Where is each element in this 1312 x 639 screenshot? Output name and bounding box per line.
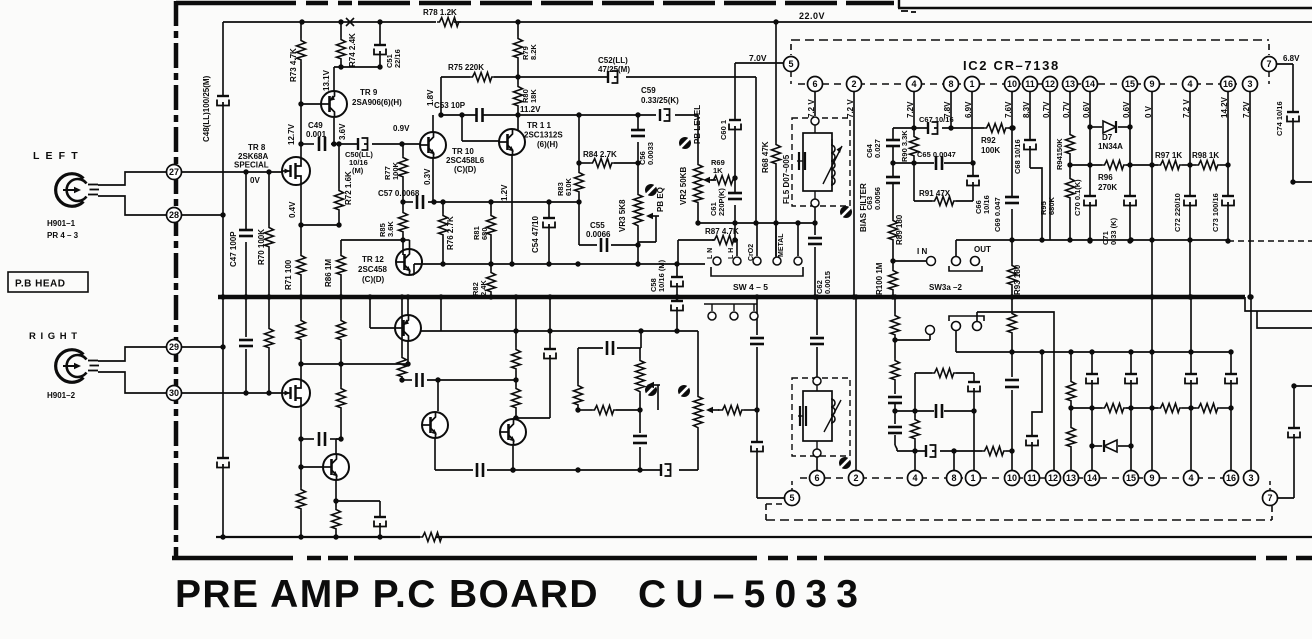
svg-text:R87 4.7K: R87 4.7K [705,227,739,236]
pin 8 of IC2 top row x951 [944,77,959,92]
svg-text:R68 47K: R68 47K [761,141,770,173]
wire TR8b source [300,407,302,439]
svg-text:CrO2: CrO2 [748,244,755,261]
bias filter screw [840,206,852,218]
resistor R74b column [340,297,342,318]
connector pin 30 [167,386,182,401]
svg-text:1: 1 [970,473,975,483]
wire TR11 collector [517,115,519,130]
wire y128 C67 R92 [893,127,928,129]
svg-text:0.3V: 0.3V [423,168,432,185]
wire pin12 column [1049,92,1051,240]
svg-text:1: 1 [969,79,974,89]
resistor R78 1.2K on rail [437,18,461,27]
svg-text:8: 8 [951,473,956,483]
connector H901-2 jack symbol [56,350,99,383]
svg-text:610K: 610K [564,177,573,196]
transistor TR9 PNP [321,91,347,117]
signal wire y115 with C53 [441,114,476,116]
FL5 internal capacitor [797,160,803,162]
svg-text:2SC458: 2SC458 [358,265,387,274]
switch SW3ab [952,322,961,331]
IC2 pin row dashed link top [798,83,1243,85]
wire pin2b column [855,297,857,470]
resistor R82b [335,501,337,507]
wire TR9b base [370,327,395,329]
svg-text:(C)(D): (C)(D) [362,275,385,284]
capacitor C58c [660,464,662,476]
svg-text:SW3a –2: SW3a –2 [929,283,962,292]
svg-text:R I G H T: R I G H T [29,331,78,342]
svg-text:C60 1: C60 1 [719,120,728,140]
feedback block R84 R83 C56 VR3 [578,115,580,163]
wire C48 column [222,22,224,96]
wire R75 node column [440,77,442,115]
svg-text:1N34A: 1N34A [1098,142,1123,151]
ground column bottom left [222,297,224,458]
pin 5 of IC2 bottom [785,491,800,506]
svg-text:12.7V: 12.7V [287,123,296,145]
svg-text:R91 47X: R91 47X [919,189,951,198]
capacitor C57 0.0068 [416,195,419,209]
pin 5 of IC2 [784,57,799,72]
svg-text:27: 27 [169,167,179,177]
wire pin5 7.0V feed [735,62,784,64]
svg-text:C73 100/16: C73 100/16 [1211,193,1220,232]
wire pin 28 to C48 column [182,214,223,216]
svg-text:P.B HEAD: P.B HEAD [15,279,66,290]
pin 10 of IC2 top row x1012 [1005,77,1020,92]
svg-text:11: 11 [1025,79,1035,89]
svg-text:12: 12 [1045,79,1055,89]
svg-text:8: 8 [948,79,953,89]
resistor R74 2.4K [340,22,342,37]
pin 14 of IC2 bottom row x1092 [1085,471,1100,486]
resistor R69b [718,409,720,411]
wire pin2 column [853,92,855,297]
resistor R78b on bottom rail [420,533,444,542]
pin 4 of IC2 bottom row x1191 [1184,471,1199,486]
top-right table box edge [898,0,900,8]
svg-text:L N: L N [707,248,714,259]
svg-text:I N: I N [917,247,927,256]
svg-text:TR 10: TR 10 [452,147,474,156]
IC2 dashed box bottom [766,519,1272,521]
svg-text:C67 10/16: C67 10/16 [919,115,954,124]
potentiometer VR2 50KB [697,115,699,162]
R91 loop [913,163,915,201]
wire pin14 column C70 [1089,92,1091,196]
svg-text:1K: 1K [713,166,723,175]
svg-text:IC2 CR–7138: IC2 CR–7138 [963,58,1060,73]
svg-text:12: 12 [1048,473,1058,483]
svg-text:R70 100K: R70 100K [257,229,266,265]
resistor R71b top column [300,297,302,318]
wire pin3 column [1249,92,1251,297]
svg-text:5: 5 [789,493,794,503]
svg-text:9: 9 [1149,473,1154,483]
signal wire C57 [403,201,413,203]
wire pin10b column R93b C69b [1011,297,1013,311]
wire TR9b top [407,297,409,315]
svg-text:R86 1M: R86 1M [324,259,333,287]
wire TR11b emitter [512,446,514,470]
switch SW4-5 contacts [713,257,721,265]
wire pin16 column C73 [1227,92,1229,196]
capacitor C49b wire [301,438,314,440]
wire emitter to C58b [336,500,380,502]
pin 15 of IC2 bottom row x1131 [1124,471,1139,486]
svg-text:0.0033: 0.0033 [646,142,655,165]
wire y408 bottom R96b R97b R98b [1071,407,1102,409]
svg-text:L H: L H [728,248,735,259]
svg-text:C54 47/10: C54 47/10 [531,216,540,253]
left border dash-dot frame line [174,1,179,557]
resistor R73 column [300,22,302,38]
svg-text:4: 4 [1188,473,1193,483]
resistor R79 8.2K [517,22,519,36]
wire pin4bb column C72b [1190,297,1192,374]
IC2 bottom pin row dashed [800,477,1244,479]
svg-text:OUT: OUT [974,245,991,254]
wire OUTb to pin12b [977,312,1054,478]
wire y331 long [421,330,698,332]
wire pin11b column C68b [1031,446,1033,470]
svg-text:METAL: METAL [778,233,785,257]
column C59b C60b to pin5 [756,297,758,335]
pin 3 of IC2 top row x1250 [1243,77,1258,92]
capacitor C74b column [1293,386,1295,428]
svg-text:9: 9 [1149,79,1154,89]
svg-text:C57 0.0068: C57 0.0068 [378,189,420,198]
svg-text:13: 13 [1066,473,1076,483]
wire C74 node to right edge [1293,181,1312,183]
wire R74 C51 node [334,66,380,68]
pin 13 of IC2 bottom row x1071 [1064,471,1079,486]
svg-text:L E F T: L E F T [33,150,79,162]
svg-text:6: 6 [812,79,817,89]
svg-text:1.2V: 1.2V [500,184,509,201]
resistor R79b [515,297,517,347]
wire IN b [895,339,930,341]
wire TR11 emitter [511,155,513,264]
capacitor C54 47/10 [548,202,550,218]
resistor R77 100K [402,144,404,155]
resistor R86 1M [340,240,342,253]
wire jack to pin 28 [98,196,166,215]
wire TR10 emitter [432,158,434,202]
pin 16 of IC2 top row x1228 [1221,77,1236,92]
resistor R90b [914,411,916,417]
transistor TR10 NPN [420,132,446,158]
svg-text:(C)(D): (C)(D) [454,165,477,174]
emitter bus wire y470 bottom [435,469,473,471]
svg-text:680: 680 [480,227,489,240]
svg-text:3: 3 [1248,473,1253,483]
svg-text:0.0056: 0.0056 [873,187,882,210]
svg-text:6.8V: 6.8V [1283,54,1300,63]
resistor R92 100K [984,124,1008,133]
wire to TR10b [437,380,439,411]
signal wire with C49 C50 [301,143,314,145]
svg-text:0.0066: 0.0066 [586,230,611,239]
switch SW4-5b contacts [704,303,757,305]
svg-text:1.8V: 1.8V [426,89,435,106]
wire TR8 source [300,185,302,225]
svg-text:10: 10 [1007,473,1017,483]
resistor R68 47K column [775,22,777,142]
wire y163 C65 [893,162,934,164]
pin 4 of IC2 top row x1190 [1183,77,1198,92]
capacitor C58 10/16 [676,264,678,277]
wire y451 bottom C67b R92b [897,450,926,452]
wire pin1 column [971,92,973,163]
svg-text:2: 2 [853,473,858,483]
svg-text:H901–2: H901–2 [47,391,76,400]
pin 10 of IC2 bottom row x1012 [1005,471,1020,486]
wire drain node y364 [301,363,408,365]
svg-text:18K: 18K [529,89,538,103]
svg-text:R89 180: R89 180 [895,214,904,245]
svg-text:0.027: 0.027 [873,139,882,158]
svg-text:D7: D7 [1102,133,1113,142]
wire C52 supply feed [518,76,608,78]
P.B HEAD box [8,272,88,292]
connector pin 29 [167,340,182,355]
svg-text:2SC458L6: 2SC458L6 [446,156,485,165]
pin 15 of IC2 top row x1130 [1123,77,1138,92]
svg-text:0V: 0V [250,176,260,185]
resistor R76 2.7K [442,202,444,213]
bottom border dashed frame line [172,556,293,561]
capacitor C66 10/16 [972,163,974,176]
pin 8 of IC2 bottom row x954 [947,471,962,486]
capacitor C55 0.0066 [578,202,580,245]
svg-text:100K: 100K [391,161,400,180]
wire FL5b to pin6b [816,457,818,470]
potentiometer VR3b [639,348,641,358]
connector pin 27 [167,165,182,180]
wire pin13b column R94b R95b [1070,352,1072,379]
pin 13 of IC2 top row x1070 [1063,77,1078,92]
connector H901-1 jack symbol [56,174,99,207]
wire TR9b bottom [407,341,409,364]
svg-text:C70 0.1(K): C70 0.1(K) [1073,179,1082,216]
wire TR11b collector [513,417,516,419]
svg-text:PR 4 – 3: PR 4 – 3 [47,231,79,240]
wire pin15b column C71b [1130,352,1132,374]
svg-text:R84 2.7K: R84 2.7K [583,150,617,159]
svg-text:13: 13 [1065,79,1075,89]
svg-text:C72 220/10: C72 220/10 [1173,193,1182,232]
svg-text:13.1V: 13.1V [322,69,331,91]
wire VR3 bottom [637,245,639,264]
wire pin15 column C71 [1129,92,1131,196]
svg-text:0.33/25(K): 0.33/25(K) [641,96,679,105]
wire R87 to ground node [677,240,679,264]
svg-text:R94150K: R94150K [1055,138,1064,170]
wire cross mark near C50 column [346,18,354,26]
capacitor C55b [639,410,641,433]
svg-text:R71 100: R71 100 [284,259,293,290]
svg-text:11.2V: 11.2V [520,105,541,114]
pin 7 of IC2 bottom [1263,491,1278,506]
wire 22V top rail [223,21,436,23]
wire TR8 drain [300,144,302,157]
capacitor C61 220P [734,178,736,193]
svg-text:4: 4 [1187,79,1192,89]
capacitor C50 [357,138,359,150]
bias filter FL5b [792,378,850,456]
bias divider column C64 C63 R89 R100 [892,128,894,140]
wire R86 to TR12 base node [341,239,403,241]
svg-text:C49: C49 [308,121,323,130]
svg-text:H901–1: H901–1 [47,219,76,228]
top border dashed frame line [176,1,296,6]
svg-text:C55: C55 [590,221,605,230]
capacitor C62b column [816,297,818,335]
wire TR12b emitter [335,480,337,501]
wire source-emitter node [301,224,339,226]
svg-text:R100 1M: R100 1M [875,262,884,295]
wire pin11 column C68 [1029,92,1031,140]
svg-text:C69 0.047: C69 0.047 [993,197,1002,232]
resistor R81 680 [490,202,492,213]
pin 2 of IC2 bottom row x856 [849,471,864,486]
wire TR9 emitter to node [333,67,335,91]
resistor R82 2.4K [490,264,492,270]
emitter bus wire y264 [414,263,705,265]
resistor column x402 bottom [401,297,403,355]
svg-text:CU–5033: CU–5033 [638,573,867,616]
svg-text:R76 2.7K: R76 2.7K [446,216,455,250]
svg-text:8.2K: 8.2K [529,44,538,60]
wire TR10b emitter [434,438,436,470]
resistor R70 column [268,172,270,225]
wire TR12b base [301,466,323,468]
svg-text:3: 3 [1247,79,1252,89]
pin 2 of IC2 top row x854 [847,77,862,92]
FL5 internal coil [831,145,835,185]
pin 11 of IC2 top row x1030 [1023,77,1038,92]
wire pin8 column [950,92,952,128]
svg-text:0.001: 0.001 [306,130,327,139]
wire pin10 column R93 C69 [1011,92,1013,197]
capacitor C47b column [245,297,247,337]
svg-text:7: 7 [1267,493,1272,503]
wire pin13 column R94 R95 [1069,92,1071,132]
resistor R87 4.7K [678,239,714,241]
switch SW3a-2 [952,257,961,266]
screw FL5b [839,457,851,469]
svg-text:16: 16 [1226,473,1236,483]
wire SW3a to feedback rail y240 [955,240,957,257]
svg-text:16: 16 [1223,79,1233,89]
svg-text:C68 10/16: C68 10/16 [1013,139,1022,174]
svg-text:(6)(H): (6)(H) [537,140,558,149]
connector pin 28 [167,208,182,223]
wire y223 to C62 node [698,222,815,224]
transistor TR9b PNP [395,315,421,341]
capacitor C58b [374,516,386,518]
transistor TR11 NPN [499,129,525,155]
capacitor C47 column [245,172,247,230]
svg-text:100K: 100K [981,146,1000,155]
pin 6 of IC2 top row x815 [808,77,823,92]
svg-text:TR 9: TR 9 [360,88,378,97]
wire pin3b column [1250,297,1252,470]
svg-text:2SC1312S: 2SC1312S [524,131,563,140]
R91b loop [915,372,932,374]
svg-text:3.6V: 3.6V [338,123,347,140]
svg-text:(M): (M) [352,166,364,175]
wire TR8b drain [300,364,302,379]
svg-text:R72 1.6K: R72 1.6K [344,171,353,205]
wire TR12 collector [409,240,411,249]
wire jack to pin 27 [98,172,166,185]
resistor R89 180 [889,218,898,242]
capacitor C53b [476,463,479,477]
pin 14 of IC2 top row x1090 [1083,77,1098,92]
transistor TR12 NPN [396,249,422,275]
svg-text:FL5 D07~005: FL5 D07~005 [782,154,791,204]
capacitor C51 22/16 [379,22,381,45]
transistor TR11b NPN [500,419,526,445]
pin 9 of IC2 bottom row x1152 [1145,471,1160,486]
resistor R83 610K [578,163,580,170]
capacitor C60 [734,63,736,120]
svg-text:2.4K: 2.4K [479,280,488,296]
svg-text:28: 28 [169,210,179,220]
wire TR12 base [402,240,404,255]
capacitor C62 0.0015 [814,207,816,235]
feedback block bottom R83b R84b C56b VR3b [640,331,642,348]
svg-text:22.0V: 22.0V [799,11,825,21]
wire TR10 collector [432,115,434,132]
svg-text:15: 15 [1126,473,1136,483]
wire jack to pin 29 [98,347,166,361]
pin 1 of IC2 top row x972 [965,77,980,92]
potentiometer VR2b [697,331,699,394]
resistor R72 1.6K [338,144,340,188]
svg-text:10/16: 10/16 [982,195,991,214]
svg-text:2: 2 [851,79,856,89]
wire IN terminal [893,260,926,262]
svg-text:C65 0.0047: C65 0.0047 [917,150,956,159]
wire pin1b column [973,411,975,470]
capacitor C49 0.001 [318,137,321,151]
svg-text:PB LEVEL: PB LEVEL [693,105,702,144]
svg-text:0.4V: 0.4V [288,201,297,218]
resistor R100 1M [889,268,898,292]
svg-text:680K: 680K [1047,196,1056,215]
pin 12 of IC2 top row x1050 [1043,77,1058,92]
svg-text:TR 1 1: TR 1 1 [527,121,552,130]
resistor R75 220K [441,76,470,78]
diode D7 1N34A [1090,126,1102,128]
dashed continuation wire y241 [1228,240,1312,242]
bus stub to right wires [1245,297,1312,311]
svg-text:R92: R92 [981,136,996,145]
wire supply branch column x441 [440,297,442,331]
svg-text:C53 10P: C53 10P [434,101,466,110]
pin 12 of IC2 bottom row x1053 [1046,471,1061,486]
svg-text:VR2 50KB: VR2 50KB [679,167,688,205]
bottom return rail [216,536,420,538]
svg-text:PRE AMP P.C BOARD: PRE AMP P.C BOARD [175,573,599,616]
svg-text:R73 4.7K: R73 4.7K [289,48,298,82]
pin 6 of IC2 bottom row x817 [810,471,825,486]
